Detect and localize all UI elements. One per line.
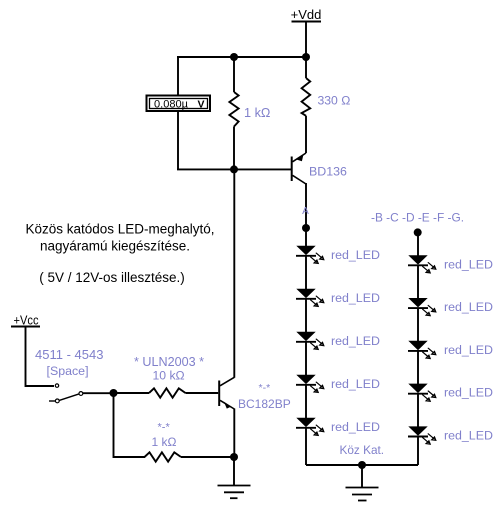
svg-text:+Vcc: +Vcc [14, 313, 39, 328]
svg-text:A: A [302, 206, 309, 217]
svg-text:red_LED: red_LED [331, 334, 380, 348]
svg-text:1 kΩ: 1 kΩ [244, 106, 270, 120]
svg-text:-B -C -D -E -F -G.: -B -C -D -E -F -G. [371, 211, 464, 225]
wire top horizontal [177, 56, 306, 58]
wire LED10 to bottom rail [417, 437, 419, 465]
resistor R1 1 kOhm vertical [229, 56, 238, 169]
wire Vcc down and right [26, 327, 55, 387]
transistor Q2 BC182BP NPN [219, 377, 234, 409]
svg-text:red_LED: red_LED [331, 248, 380, 262]
svg-text:Köz Kat.: Köz Kat. [340, 443, 385, 457]
wire to LED1 [305, 228, 307, 247]
wire LED9-LED10 [417, 394, 419, 427]
switch S1 blade tail [49, 400, 55, 402]
svg-text:red_LED: red_LED [444, 429, 493, 443]
wire collector BC182BP up [233, 169, 235, 377]
wire node down left branch [114, 393, 146, 457]
wire switch to node [83, 392, 114, 394]
svg-text:0.080µ: 0.080µ [154, 98, 188, 110]
node junction dot segments B-G [414, 228, 422, 236]
node junction dot segment A [302, 224, 310, 232]
ground GND2 stem [233, 457, 235, 486]
svg-text:Közös katódos LED-meghalytó,: Közös katódos LED-meghalytó, [25, 222, 214, 237]
wire LED6-LED7 [417, 266, 419, 299]
wire left branch upper [177, 56, 179, 95]
svg-text:red_LED: red_LED [331, 377, 380, 391]
diode LED4 red_LED [296, 375, 324, 393]
diode LED7 red_LED [408, 298, 436, 316]
voltmeter M1 0.080u V [147, 96, 211, 112]
wire LED5 to bottom rail [305, 428, 307, 465]
resistor R4 1 kOhm horizontal [145, 452, 235, 461]
svg-text:330 Ω: 330 Ω [318, 94, 351, 108]
svg-text:red_LED: red_LED [331, 291, 380, 305]
wire base horizontal BD136 [177, 168, 291, 170]
resistor R2 330 Ohm vertical [302, 57, 311, 153]
svg-text:red_LED: red_LED [444, 300, 493, 314]
svg-text:4511 - 4543: 4511 - 4543 [35, 347, 103, 362]
svg-text:1 kΩ: 1 kΩ [152, 435, 177, 449]
svg-text:nagyáramú kiegészítése.: nagyáramú kiegészítése. [40, 239, 190, 254]
node junction dot top-right [302, 53, 310, 61]
ground GND1 bars [346, 488, 379, 501]
diode LED6 red_LED [408, 255, 436, 273]
svg-text:10 kΩ: 10 kΩ [153, 369, 185, 383]
svg-text:[Space]: [Space] [47, 364, 89, 378]
ground GND2 bars [218, 486, 251, 499]
wire LED1-LED2 [305, 256, 307, 290]
switch S1 blade [59, 394, 79, 401]
wire to LED6 [417, 232, 419, 256]
node junction dot top-middle [230, 53, 238, 61]
node junction dot bottom rail [358, 461, 366, 469]
svg-text:red_LED: red_LED [444, 343, 493, 357]
svg-text:*-*: *-* [259, 382, 271, 394]
wire left branch lower [177, 111, 179, 169]
svg-text:*-*: *-* [158, 422, 171, 434]
diode LED2 red_LED [296, 289, 324, 307]
wire emitter BC182BP down [233, 409, 235, 458]
wire Vdd vertical [305, 22, 307, 58]
svg-text:+Vdd: +Vdd [291, 7, 322, 22]
svg-text:red_LED: red_LED [444, 257, 493, 271]
wire LED2-LED3 [305, 299, 307, 333]
switch S1 fixed contact [55, 384, 58, 387]
svg-text:red_LED: red_LED [444, 386, 493, 400]
diode LED10 red_LED [408, 426, 436, 444]
node junction dot mid-left [230, 165, 238, 173]
node +Vcc label [11, 313, 40, 328]
diode LED9 red_LED [408, 384, 436, 402]
node junction dot switch-right [110, 389, 118, 397]
wire LED8-LED9 [417, 351, 419, 384]
svg-text:* ULN2003 *: * ULN2003 * [134, 355, 204, 369]
svg-text:V: V [197, 98, 204, 110]
node +Vdd label [291, 7, 322, 22]
diode LED3 red_LED [296, 332, 324, 350]
diode LED1 red_LED [296, 246, 324, 264]
wire collector BD136 down [305, 183, 307, 228]
wire bottom rail [306, 464, 418, 466]
ground GND1 stem [361, 465, 363, 488]
switch S1 pivot contact [79, 392, 83, 396]
diode LED5 red_LED [296, 418, 324, 436]
wire LED7-LED8 [417, 308, 419, 341]
switch S1 moving contact [55, 399, 59, 403]
svg-text:( 5V / 12V-os illesztése.): ( 5V / 12V-os illesztése.) [39, 270, 185, 285]
wire LED4-LED5 [305, 385, 307, 419]
node junction dot emitter [230, 453, 238, 461]
svg-text:BC182BP: BC182BP [238, 397, 291, 411]
resistor R3 10 kOhm horizontal [114, 388, 219, 397]
svg-text:red_LED: red_LED [331, 420, 380, 434]
diode LED8 red_LED [408, 341, 436, 359]
svg-text:BD136: BD136 [309, 165, 347, 179]
transistor Q1 BD136 PNP [292, 153, 306, 184]
wire LED3-LED4 [305, 342, 307, 376]
